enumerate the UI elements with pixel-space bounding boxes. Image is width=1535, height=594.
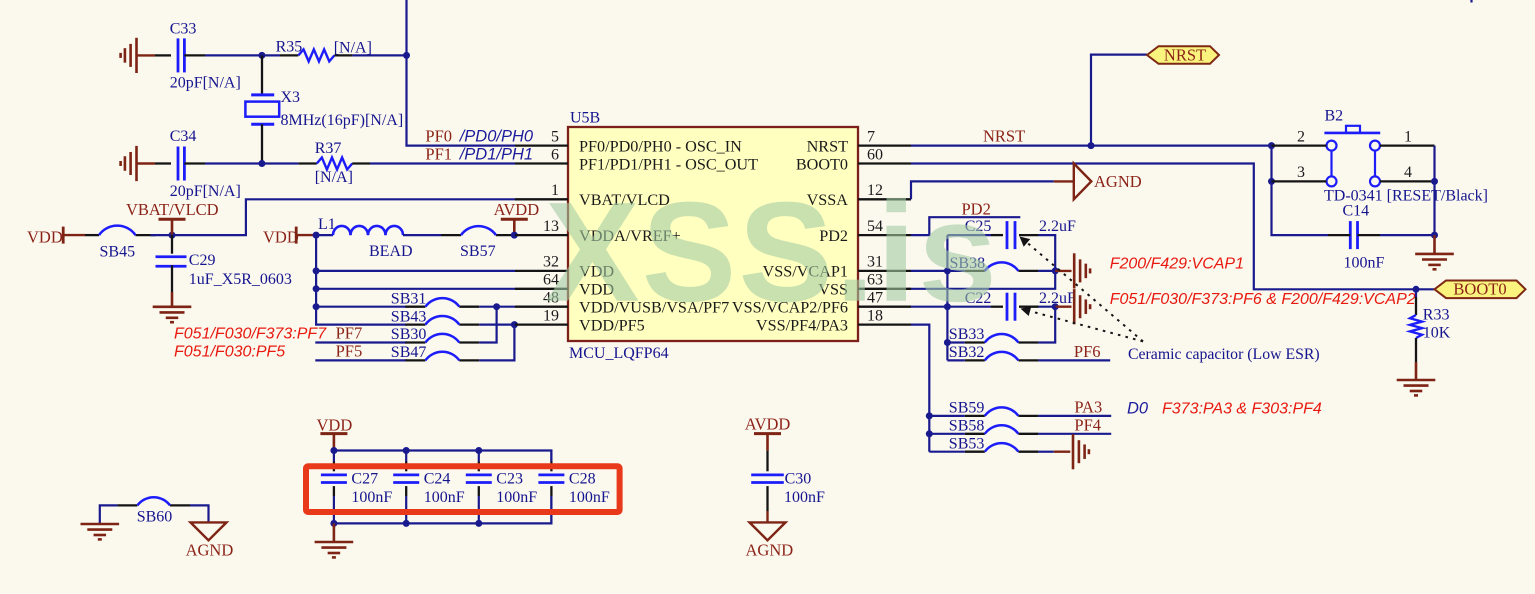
svg-text:BOOT0: BOOT0: [1453, 280, 1506, 299]
wire VSSA: [911, 181, 1074, 199]
wire: [1433, 146, 1435, 236]
svg-text:Ceramic capacitor (Low ESR): Ceramic capacitor (Low ESR): [1128, 346, 1320, 363]
capacitor C29: [156, 235, 292, 292]
svg-text:PF7: PF7: [336, 324, 363, 343]
node junction: [1052, 303, 1059, 310]
wire PF5: [315, 359, 407, 361]
ground (decoupling): [315, 523, 354, 557]
svg-text:C27: C27: [351, 470, 378, 487]
wire: [100, 505, 118, 523]
node junction: [313, 232, 320, 239]
wire bottom rail: [334, 496, 552, 523]
svg-text:AVDD: AVDD: [494, 200, 540, 219]
svg-text:C30: C30: [785, 470, 812, 487]
svg-text:SB45: SB45: [100, 244, 136, 261]
svg-text:PF0/PD0/PH0 - OSC_IN: PF0/PD0/PH0 - OSC_IN: [579, 137, 742, 155]
svg-text:7: 7: [867, 128, 875, 145]
capacitor C25: [947, 218, 1076, 249]
solder bridge SB58: [929, 418, 1038, 435]
svg-text:C33: C33: [170, 21, 197, 38]
wire: [316, 306, 407, 308]
solder bridge SB30: [391, 326, 480, 343]
svg-text:SB47: SB47: [391, 344, 427, 361]
node junction: [511, 232, 518, 239]
svg-text:VDD: VDD: [263, 228, 299, 247]
net label PF5: [336, 342, 363, 361]
node junction top: [403, 447, 410, 454]
svg-text:100nF: 100nF: [496, 489, 537, 506]
pin 7 NRST: [807, 128, 911, 155]
power port VDD: [27, 227, 85, 247]
annotation F051/F030/F373:PF6 VCAP2: [1110, 291, 1416, 308]
ground chassis (C34 left): [121, 146, 155, 181]
pin 60 BOOT0: [796, 146, 911, 173]
node junction: [944, 267, 951, 274]
wire riser: [479, 325, 514, 361]
solder bridge SB53: [929, 435, 1038, 452]
svg-text:SB59: SB59: [949, 400, 985, 417]
ground: [153, 292, 192, 322]
node junction: [479, 321, 518, 328]
solder bridge SB31: [391, 290, 480, 307]
power port VDD (filter): [263, 227, 316, 247]
net label PF0: [425, 127, 533, 146]
svg-text:R35: R35: [276, 39, 303, 56]
svg-text:C28: C28: [569, 470, 596, 487]
wire: [911, 235, 1055, 289]
svg-text:NRST: NRST: [807, 137, 848, 155]
wire VDD bus vertical: [316, 235, 407, 325]
ground AGND (VSSA): [1074, 164, 1142, 200]
solder bridge SB47: [391, 344, 480, 361]
svg-text:PA3: PA3: [1074, 398, 1102, 417]
flag BOOT0: [1435, 280, 1526, 299]
node junction: [403, 52, 410, 59]
wire VDD pin 32: [316, 270, 515, 272]
svg-text:AGND: AGND: [1094, 172, 1142, 191]
node VBAT junction: [169, 232, 176, 239]
svg-text:U5B: U5B: [570, 110, 600, 127]
net label PF7: [336, 324, 363, 343]
node junction: [1268, 142, 1275, 149]
svg-text:SB60: SB60: [137, 509, 173, 526]
svg-text:C24: C24: [424, 470, 451, 487]
wire PF4: [1038, 416, 1111, 435]
wire riser: [946, 235, 948, 360]
flag NRST: [1147, 45, 1219, 64]
inductor L1 BEAD: [316, 216, 412, 260]
node junction: [1268, 178, 1275, 185]
solder bridge SB38: [947, 255, 1055, 272]
svg-text:6: 6: [551, 146, 559, 163]
annotation F373:PA3 F303:PF4: [1162, 401, 1322, 418]
pin 3: [1272, 164, 1327, 181]
svg-text:100nF: 100nF: [351, 489, 392, 506]
label TD-0341: [1324, 188, 1488, 205]
svg-text:VDD: VDD: [317, 416, 353, 435]
pin 63 VSS: [818, 272, 911, 299]
svg-text:20pF[N/A]: 20pF[N/A]: [170, 75, 241, 92]
node junction: [1052, 267, 1059, 274]
wire NRST: [911, 127, 1272, 146]
wire: [151, 234, 173, 236]
node junction top: [475, 447, 482, 454]
svg-text:NRST: NRST: [1164, 45, 1206, 64]
wire pin 31: [911, 270, 947, 272]
pin 18 VSS/PF4/PA3: [756, 307, 911, 334]
switch B2: [1324, 108, 1380, 187]
svg-text:SB57: SB57: [460, 243, 496, 260]
pin 64 VDD: [515, 272, 614, 299]
svg-text:C23: C23: [496, 470, 523, 487]
svg-text:BOOT0: BOOT0: [796, 155, 848, 173]
wire PF7: [315, 341, 407, 343]
wire: [155, 54, 171, 56]
net label PD2: [962, 199, 991, 218]
svg-text:60: 60: [867, 146, 883, 163]
ground AGND (C30): [746, 511, 794, 560]
svg-text:3: 3: [1297, 164, 1305, 181]
svg-text:AGND: AGND: [186, 541, 234, 560]
annotation F051/F030/F373:PF7: [174, 326, 327, 343]
capacitor C30: [751, 451, 825, 511]
svg-text:VDD: VDD: [27, 228, 63, 247]
ground (SB60): [81, 524, 120, 539]
wire: [403, 234, 441, 236]
svg-text:PF6: PF6: [1074, 342, 1101, 361]
svg-text:2.2uF: 2.2uF: [1039, 218, 1076, 235]
svg-text:SB43: SB43: [391, 308, 427, 325]
svg-text:PF0: PF0: [425, 127, 452, 146]
wire PF0 vertical: [407, 0, 516, 146]
power port VDD (decoupling): [317, 416, 353, 451]
node junction: [926, 430, 933, 437]
svg-text:C14: C14: [1343, 203, 1370, 220]
svg-text:8MHz(16pF)[N/A]: 8MHz(16pF)[N/A]: [281, 112, 404, 129]
annotation F200/F429:VCAP1: [1110, 256, 1244, 273]
svg-text:5: 5: [551, 128, 559, 145]
wire VDD pin 64: [316, 288, 515, 290]
node junction: [1431, 232, 1438, 239]
solder bridge SB33: [947, 326, 1038, 343]
node junction: [313, 303, 320, 310]
solder bridge SB60: [117, 497, 190, 525]
pin 4: [1380, 164, 1435, 181]
wire VBAT to pin 1: [172, 199, 515, 235]
svg-text:1uF_X5R_0603: 1uF_X5R_0603: [189, 271, 292, 288]
node junction: [330, 447, 337, 454]
svg-text:PF1: PF1: [425, 145, 452, 164]
node junction: [1413, 286, 1420, 293]
svg-text:[N/A]: [N/A]: [334, 40, 372, 57]
wire riser: [1038, 307, 1055, 343]
svg-text:MCU_LQFP64: MCU_LQFP64: [569, 345, 669, 362]
svg-text:X3: X3: [281, 89, 301, 106]
pin 6 PF1/PD1/PH1 - OSC_OUT: [515, 146, 758, 173]
op-amp U5B MCU box: [568, 110, 858, 363]
svg-text:F200/F429:VCAP1: F200/F429:VCAP1: [1110, 256, 1244, 273]
svg-text:/PD1/PH1: /PD1/PH1: [459, 146, 533, 164]
svg-text:PF4: PF4: [1074, 416, 1101, 435]
pin 32 VDD: [515, 254, 614, 281]
pin 31 VSS/VCAP1: [763, 254, 911, 281]
wire stub top right: [1470, 0, 1472, 3]
wire: [190, 505, 209, 522]
wire: [205, 162, 262, 164]
node junction: [330, 520, 337, 527]
pin 1: [1380, 128, 1435, 145]
wire: [1272, 146, 1329, 236]
svg-text:100nF: 100nF: [784, 489, 825, 506]
svg-text:AGND: AGND: [746, 541, 794, 560]
crystal X3: [245, 55, 403, 163]
svg-text:F373:PA3 & F303:PF4: F373:PA3 & F303:PF4: [1162, 401, 1322, 418]
pin 47 VSS/VCAP2/PF6: [732, 290, 911, 317]
svg-text:100nF: 100nF: [424, 489, 465, 506]
solder bridge SB45: [85, 226, 156, 261]
ground (C14): [1415, 235, 1454, 269]
power port AVDD (C30): [745, 415, 791, 451]
wire riser: [479, 307, 496, 343]
highlight red box: [306, 466, 620, 512]
ground AGND (SB60): [186, 522, 234, 559]
node junction: [403, 520, 410, 527]
svg-text:SB32: SB32: [949, 344, 985, 361]
ground chassis (SB53): [1073, 434, 1089, 469]
node junction: [944, 303, 951, 310]
ground (R33): [1397, 362, 1436, 395]
capacitor C28: [538, 451, 610, 524]
pin 48 VDD/VUSB/VSA/PF7: [515, 290, 729, 317]
annotation ceramic capacitor note: [1128, 346, 1320, 363]
svg-text:[N/A]: [N/A]: [315, 169, 353, 186]
svg-text:R37: R37: [315, 140, 342, 157]
svg-text:1: 1: [1404, 128, 1412, 145]
wire: [352, 54, 406, 56]
net label PF1: [425, 145, 533, 164]
svg-text:VBAT/VLCD: VBAT/VLCD: [126, 200, 219, 219]
power port AVDD: [494, 200, 540, 235]
wire: [1039, 306, 1056, 308]
svg-text:L1: L1: [318, 216, 336, 233]
svg-text:2: 2: [1297, 128, 1305, 145]
wire pin 18 riser: [911, 325, 929, 452]
svg-text:D0: D0: [1127, 400, 1149, 418]
pin 5 PF0/PD0/PH0 - OSC_IN: [515, 128, 742, 155]
capacitor C33: [170, 21, 241, 92]
capacitor C22: [947, 290, 1076, 321]
resistor R33: [1410, 289, 1451, 362]
solder bridge SB43: [391, 308, 480, 325]
wire top rail: [334, 451, 552, 462]
wire: [155, 162, 171, 164]
svg-text:/PD0/PH0: /PD0/PH0: [459, 128, 534, 146]
svg-text:100nF: 100nF: [569, 489, 610, 506]
dotted leader to C22: [1021, 306, 1144, 341]
wire: [1038, 451, 1070, 453]
annotation F051/F030:PF5: [174, 344, 285, 361]
svg-text:F051/F030/F373:PF7: F051/F030/F373:PF7: [174, 326, 327, 343]
svg-text:SB58: SB58: [949, 418, 985, 435]
node junction: [475, 520, 482, 527]
node junction: [479, 303, 515, 310]
svg-text:F051/F030/F373:PF6 & F200/F429: F051/F030/F373:PF6 & F200/F429:VCAP2: [1110, 291, 1416, 308]
node junction: [313, 285, 320, 292]
watermark XSS.is: [545, 173, 999, 332]
solder bridge SB57: [441, 226, 516, 260]
pin 1 VBAT/VLCD: [515, 182, 670, 209]
svg-text:F051/F030:PF5: F051/F030:PF5: [174, 344, 285, 361]
solder bridge SB59: [929, 400, 1038, 417]
pin 13 VDDA/VREF+: [515, 218, 681, 245]
ground chassis VCAP2: [1055, 289, 1090, 324]
svg-text:C34: C34: [170, 128, 197, 145]
svg-text:XSS.is: XSS.is: [545, 173, 999, 332]
annotation D0: [1127, 400, 1149, 418]
resistor R37: [262, 140, 370, 186]
wire: [205, 54, 262, 56]
wire BOOT0: [911, 164, 1435, 290]
svg-text:SB53: SB53: [949, 435, 985, 452]
node junction: [313, 267, 320, 274]
node junction: [926, 412, 933, 419]
svg-text:NRST: NRST: [983, 127, 1025, 146]
svg-text:SB31: SB31: [391, 290, 427, 307]
capacitor C23: [466, 451, 538, 524]
svg-text:PF1/PD1/PH1 - OSC_OUT: PF1/PD1/PH1 - OSC_OUT: [579, 155, 758, 173]
capacitor C27: [321, 451, 393, 524]
pin 54 PD2: [819, 218, 911, 245]
wire pin 47: [911, 306, 947, 308]
svg-text:4: 4: [1404, 164, 1412, 181]
wire PD2: [911, 217, 1020, 235]
capacitor C14: [1328, 203, 1435, 272]
svg-text:PF5: PF5: [336, 342, 363, 361]
svg-text:SB30: SB30: [391, 326, 427, 343]
ground chassis VCAP1: [1055, 253, 1090, 288]
wire PA3: [1038, 398, 1111, 417]
node junction: [1431, 178, 1438, 185]
svg-text:R33: R33: [1423, 307, 1450, 324]
dotted leader to C25: [1020, 237, 1144, 342]
svg-text:B2: B2: [1325, 108, 1344, 125]
power port VBAT/VLCD: [126, 200, 219, 235]
capacitor C34: [170, 128, 241, 200]
ground chassis (C33 left): [121, 38, 155, 73]
node junction: [944, 339, 951, 346]
pin 12 VSSA: [807, 182, 911, 209]
pin 19 VDD/PF5: [515, 307, 645, 334]
pin 2: [1272, 128, 1327, 145]
wire PF1: [370, 162, 515, 164]
svg-text:AVDD: AVDD: [745, 415, 791, 434]
resistor R35: [262, 39, 372, 62]
wire to NRST flag: [1091, 55, 1147, 146]
capacitor C24: [393, 451, 465, 524]
svg-text:100nF: 100nF: [1344, 255, 1385, 272]
wire PF6: [1038, 342, 1110, 361]
node junction: [1088, 142, 1095, 149]
solder bridge SB32: [947, 344, 1038, 361]
svg-text:20pF[N/A]: 20pF[N/A]: [170, 183, 241, 200]
node junction: [258, 160, 265, 167]
node junction: [258, 52, 265, 59]
svg-text:10K: 10K: [1423, 325, 1451, 342]
svg-text:C29: C29: [189, 252, 216, 269]
svg-text:BEAD: BEAD: [369, 243, 413, 260]
